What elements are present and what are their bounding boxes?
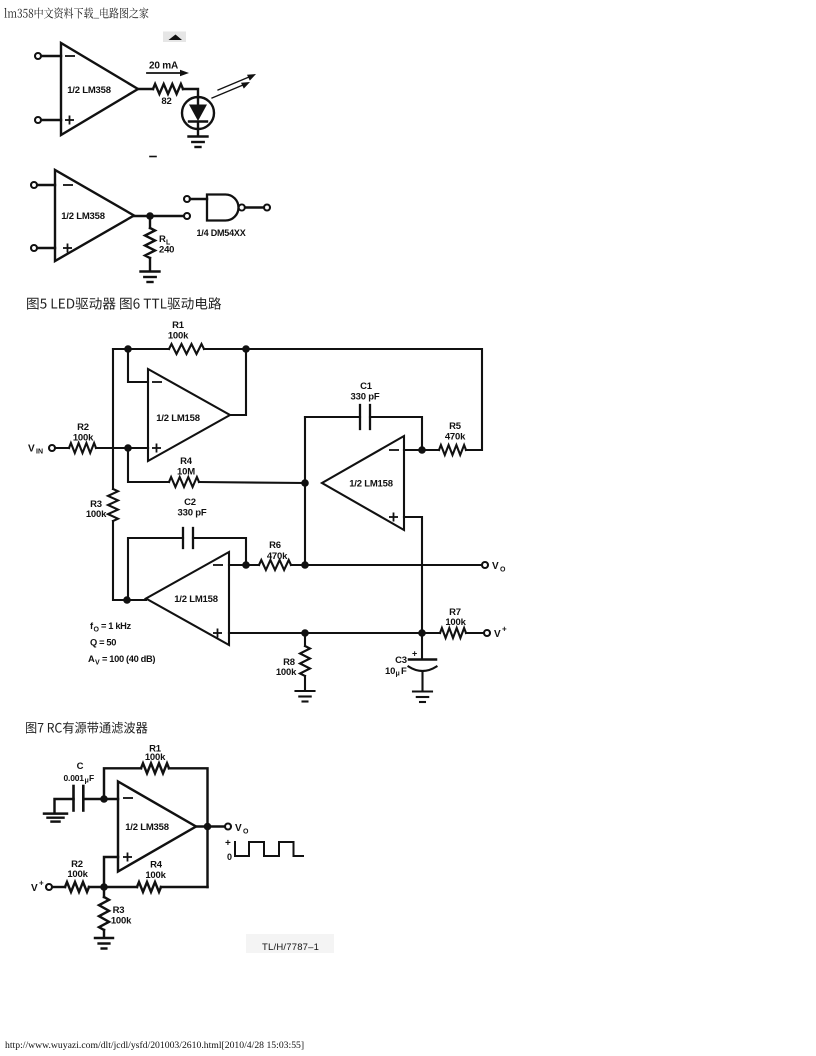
svg-text:V: V (494, 629, 501, 640)
capacitor C3 10uF (385, 633, 437, 691)
svg-text:100k: 100k (168, 331, 189, 342)
wire U4 inverting input (404, 449, 439, 451)
NAND gate 1/4 DM54XX (184, 195, 270, 239)
svg-text:10M: 10M (177, 467, 195, 478)
node junction (fig6) (146, 212, 154, 220)
svg-text:470k: 470k (445, 432, 466, 443)
wire left vertical (R3 branch) (112, 349, 114, 489)
wire U6 non-inverting input (104, 857, 118, 887)
wire U4 non-inverting input (404, 517, 422, 633)
op-amp U5 1/2 LM158 (bottom-left of fig7) (146, 552, 229, 645)
svg-text:http://www.wuyazi.com/dlt/jcdl: http://www.wuyazi.com/dlt/jcdl/ysfd/2010… (5, 1040, 304, 1051)
wire U3 non-inverting input (128, 447, 148, 449)
wire R6 to VO line (291, 564, 482, 566)
svg-text:F: F (401, 666, 407, 677)
terminal VO (fig7) (482, 561, 506, 574)
resistor R3 100k (86, 489, 118, 521)
svg-text:1/2 LM358: 1/2 LM358 (125, 822, 169, 833)
op-amp U4 1/2 LM158 (middle of fig7) (322, 436, 404, 530)
wire U2 output (134, 215, 184, 217)
wire R4b to output corner (161, 886, 208, 888)
svg-text:C3: C3 (395, 655, 407, 666)
svg-text:V: V (28, 444, 35, 455)
svg-text:0: 0 (227, 852, 232, 862)
stray dash mark (150, 156, 156, 158)
wire R4 branch (128, 448, 169, 482)
U1 non-inverting input terminal (35, 116, 74, 125)
svg-text:C2: C2 (184, 497, 196, 508)
svg-text:100k: 100k (145, 752, 166, 763)
op-amp U1 1/2 LM358 (fig5) (61, 43, 138, 135)
node R2/R3/R4 (100, 883, 108, 891)
svg-text:100k: 100k (445, 617, 466, 628)
svg-text:A: A (88, 654, 95, 664)
op-amp U3 1/2 LM158 (top-left of fig7) (148, 369, 230, 461)
ground R8 (296, 690, 315, 692)
node U4 output (301, 479, 309, 487)
LED D1 (182, 97, 214, 136)
ground (fig5) (189, 137, 208, 148)
svg-text:= 100 (40 dB): = 100 (40 dB) (102, 654, 155, 664)
svg-text:R4: R4 (180, 456, 193, 467)
svg-text:1/2 LM158: 1/2 LM158 (174, 594, 218, 605)
svg-text:IN: IN (36, 449, 43, 456)
svg-text:0.001: 0.001 (64, 773, 85, 783)
terminal V+ (fig7) (484, 625, 507, 641)
wire R3 down to U3 output (113, 521, 146, 600)
terminal VO (fig8) (225, 823, 249, 836)
node top-left (124, 345, 132, 353)
resistor R4b 100k (137, 860, 167, 893)
svg-text:R1: R1 (172, 320, 185, 331)
wire R2 to node (96, 447, 148, 449)
node top-right (242, 345, 250, 353)
node U3 output (123, 596, 131, 604)
svg-text:V: V (492, 561, 499, 572)
resistor R2 100k (69, 422, 96, 453)
wire R to LED (183, 89, 198, 97)
page title text (Chinese) (4, 7, 148, 18)
svg-text:100k: 100k (276, 667, 297, 678)
node R8 top (301, 629, 309, 637)
node U4 inverting (418, 446, 426, 454)
svg-text:1/4 DM54XX: 1/4 DM54XX (196, 228, 245, 238)
resistor R8 100k (276, 633, 310, 691)
svg-text:100k: 100k (145, 870, 166, 881)
resistor R2b 100k (65, 859, 89, 892)
caption fig5 fig6 (Chinese) (27, 297, 221, 310)
svg-text:= 1 kHz: = 1 kHz (101, 621, 132, 631)
caption fig7 (Chinese) (26, 722, 147, 734)
svg-text:R2: R2 (77, 422, 89, 433)
node C2/R6 (242, 561, 250, 569)
ground R3 (fig8) (95, 937, 113, 939)
svg-text:Q = 50: Q = 50 (90, 638, 116, 648)
wire R7 to V+ terminal (466, 632, 484, 634)
op-amp U2 1/2 LM358 (fig6) (55, 170, 134, 261)
wire U5 non-inverting input (V+ rail) (229, 632, 440, 634)
svg-text:TL/H/7787–1: TL/H/7787–1 (262, 942, 319, 953)
svg-text:100k: 100k (67, 869, 88, 880)
svg-text:+: + (225, 838, 231, 849)
resistor R7 100k (440, 607, 467, 638)
svg-text:V: V (31, 883, 38, 894)
node VIN junction (124, 444, 132, 452)
svg-text:R3: R3 (113, 905, 125, 916)
wire top feedback (fig8) (104, 768, 141, 799)
resistor RL 240 (145, 220, 174, 271)
wire R2b to node (89, 886, 137, 888)
svg-text:V: V (235, 823, 242, 834)
svg-text:V: V (95, 660, 100, 667)
svg-text:82: 82 (161, 96, 171, 107)
resistor R1 100k (168, 320, 204, 354)
svg-text:+: + (502, 625, 507, 634)
node C3 top (418, 629, 426, 637)
svg-text:330 pF: 330 pF (351, 392, 380, 403)
terminal to gate input (184, 213, 190, 219)
resistor R4 10M (169, 456, 199, 487)
terminal V+ (fig8) (46, 884, 65, 890)
resistor R3b 100k (99, 887, 132, 938)
wire R1b to output (169, 768, 208, 887)
svg-text:100k: 100k (111, 916, 132, 927)
ground C3 (413, 690, 432, 692)
svg-text:O: O (94, 627, 100, 634)
wire U6 output (196, 825, 225, 827)
svg-text:20 mA: 20 mA (149, 61, 178, 72)
input VIN label (28, 444, 43, 456)
ground (fig6) (141, 270, 160, 272)
svg-text:R4: R4 (150, 860, 163, 871)
svg-text:O: O (243, 829, 249, 836)
document number TL/H/7787 (246, 934, 334, 953)
U2 non-inverting input terminal (31, 244, 72, 253)
input V+ label (fig8) (31, 879, 44, 895)
node C/R1 (100, 795, 108, 803)
svg-text:F: F (89, 773, 94, 783)
resistor R5 470k (439, 421, 466, 455)
svg-text:1/2 LM158: 1/2 LM158 (349, 479, 393, 490)
svg-text:1/2 LM358: 1/2 LM358 (67, 85, 111, 96)
wire top feedback (113, 348, 169, 350)
svg-text:R5: R5 (449, 421, 462, 432)
svg-text:100k: 100k (73, 433, 94, 444)
label 20 mA with arrow (147, 61, 189, 77)
svg-text:1/2 LM158: 1/2 LM158 (156, 413, 200, 424)
capacitor C1 330pF (305, 381, 422, 450)
notes fo Q Av (88, 621, 155, 667)
svg-text:100k: 100k (86, 509, 107, 520)
resistor 82 (153, 84, 183, 107)
svg-text:μ: μ (396, 671, 400, 678)
svg-text:R6: R6 (269, 540, 281, 551)
wire U5 inverting input (229, 564, 259, 566)
wire U3 output (230, 349, 246, 415)
svg-text:O: O (500, 567, 506, 574)
svg-text:R: R (159, 234, 166, 245)
ground C (44, 814, 67, 822)
svg-text:1/2 LM358: 1/2 LM358 (61, 211, 105, 222)
terminal VIN (49, 445, 69, 451)
capacitor C2 330pF (128, 497, 246, 598)
wire U4 feedback vertical (304, 417, 306, 565)
op-amp U6 1/2 LM358 (fig8) (118, 782, 196, 872)
svg-text:240: 240 (159, 245, 174, 256)
wire R1 to right corner (204, 349, 482, 450)
node U6 output (204, 823, 212, 831)
svg-text:10: 10 (385, 666, 395, 677)
small cursor artifact (163, 32, 186, 43)
svg-text:470k: 470k (267, 551, 288, 562)
resistor R1b 100k (141, 744, 169, 774)
square wave symbol (225, 838, 303, 862)
U1 inverting input terminal (35, 53, 75, 59)
resistor R6 470k (259, 540, 291, 570)
capacitor C 0.001uF (55, 761, 119, 812)
wire U3 inverting input (128, 349, 148, 382)
svg-text:C: C (77, 761, 84, 772)
node R6 right (301, 561, 309, 569)
svg-text:C1: C1 (360, 381, 373, 392)
svg-text:330 pF: 330 pF (178, 508, 207, 519)
svg-text:+: + (412, 649, 417, 659)
svg-text:+: + (39, 879, 44, 888)
wire R4 to U4 output node (199, 482, 305, 483)
wire U1 output to R (138, 88, 153, 90)
LED light emission arrows (212, 74, 256, 98)
U2 inverting input terminal (31, 182, 73, 188)
